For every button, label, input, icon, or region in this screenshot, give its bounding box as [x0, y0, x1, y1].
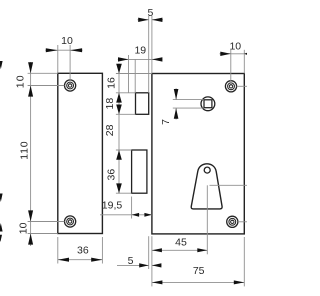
mid chain dimension line [118, 64, 120, 194]
arrow to 10tr right clipped [244, 53, 247, 54]
75 dimension line [152, 281, 244, 283]
svg-text:28: 28 [104, 124, 116, 136]
arrow to 10tr left [220, 52, 231, 56]
svg-text:18: 18 [104, 98, 116, 110]
svg-text:5: 5 [147, 7, 153, 19]
mid chain ext: latch top [116, 92, 136, 94]
bottom 5 ext: case corner down [151, 236, 153, 286]
svg-text:10: 10 [229, 40, 241, 52]
19 dimension line [118, 58, 129, 60]
mid chain ext: bolt top [116, 149, 132, 151]
arrow left 19,5 [132, 213, 140, 217]
chain arrow down bolt bottom [116, 183, 122, 193]
extension line bottom hole center [28, 221, 65, 223]
7 dim: ext line square bottom [173, 107, 204, 109]
svg-text:19,5: 19,5 [102, 200, 123, 212]
line right of bottom screw [238, 221, 247, 223]
svg-text:36: 36 [77, 245, 89, 257]
clipped arrow left edge B [0, 194, 3, 203]
mid chain ext: latch bottom [116, 113, 136, 115]
top 5 dimension line right part [152, 19, 163, 21]
arrow down to square top [174, 89, 179, 100]
10 top right: ext case right edge up [243, 50, 245, 74]
latch opening box [136, 93, 149, 115]
10 top right dimension line [220, 53, 231, 55]
19,5 dimension leader [100, 214, 132, 216]
extension line plate bottom-right down [101, 237, 103, 264]
75 ext: case right down [243, 237, 245, 286]
keyhole cover screw hole [204, 167, 210, 173]
arrow right to plate edge [46, 48, 58, 52]
7 dimension line [175, 88, 177, 99]
svg-text:19: 19 [134, 45, 146, 57]
svg-text:10: 10 [18, 222, 30, 234]
deadbolt box [132, 150, 147, 193]
clipped arrow left edge A [0, 61, 3, 69]
arrow right 45 [197, 248, 207, 252]
extension line top hole center up [69, 45, 71, 80]
top 10 dimension line [45, 49, 82, 51]
10 top right: ext from screw hole up [230, 50, 232, 81]
svg-text:16: 16 [106, 77, 118, 89]
svg-text:45: 45 [175, 236, 187, 248]
arrow up to plate bottom [28, 234, 33, 245]
screw hole top (faceplate) [65, 80, 76, 91]
arrow to bottom5 right [152, 263, 162, 267]
extension line plate left edge up [57, 45, 59, 73]
svg-text:75: 75 [193, 265, 205, 277]
19 dim: left vertical ext [128, 55, 130, 93]
top 5 dim: right vertical ext [151, 16, 153, 74]
arrow right 75 [234, 280, 245, 284]
spindle circle [201, 97, 215, 111]
arrow up to square bottom [174, 108, 179, 119]
extension line top hole center [28, 85, 65, 87]
arrow left 36 [58, 258, 69, 262]
svg-text:5: 5 [128, 255, 134, 267]
arrow to 19 right [152, 57, 163, 61]
arrow to 5 left [138, 18, 149, 22]
arrow right 19,5 [144, 213, 152, 217]
arrow down to bottom hole [28, 210, 33, 221]
arrow left 45 [152, 248, 162, 252]
arrow right 36 [91, 258, 102, 262]
svg-text:10: 10 [15, 74, 27, 88]
clipped arrow left edge C [0, 223, 3, 232]
screw hole case top-right [225, 81, 236, 92]
arrow to 5 right [152, 18, 163, 22]
top 5 dim: left vertical ext [148, 16, 150, 93]
arrow down to plate top [28, 62, 33, 73]
arrow to 19 left [118, 57, 129, 61]
keyhole center vertical line [206, 185, 208, 254]
arrow up to top hole [28, 86, 33, 97]
line right of top screw [237, 85, 247, 87]
top 5 dimension line left part [138, 19, 149, 21]
extension line plate top-left [28, 72, 58, 74]
svg-text:36: 36 [106, 169, 118, 181]
chain arrow up latch top [116, 93, 122, 103]
arrow left 75 [152, 280, 163, 284]
chain arrow up bolt top [116, 150, 122, 160]
faceplate front view outline [58, 73, 103, 233]
chain arrow down case top [116, 64, 122, 74]
7 dim: ext line square top [173, 99, 204, 101]
19 dim: latch edge vertical ext [134, 59, 136, 92]
left chain dimension line [30, 62, 32, 246]
clipped arrow left edge D [0, 235, 2, 242]
arrow left to hole center [70, 48, 82, 52]
bottom 36 dimension line [58, 259, 103, 261]
bottom 5 ext: faceplate front down [148, 236, 150, 269]
extension line plate bottom-left down [57, 237, 59, 264]
svg-text:10: 10 [61, 35, 73, 47]
mid chain ext: bolt bottom [116, 192, 132, 194]
bottom 5 dim leader [117, 264, 149, 266]
keyhole horizontal line to right edge [210, 184, 248, 186]
spindle square [204, 100, 212, 108]
lock case outline [152, 74, 244, 234]
svg-text:110: 110 [19, 141, 31, 160]
keyhole cover plate [191, 164, 222, 209]
screw hole case bottom-right [227, 216, 238, 227]
chain arrow down latch bottom [116, 105, 122, 115]
45 dimension line [152, 249, 207, 251]
extension line plate bottom-left [28, 233, 58, 235]
svg-text:7: 7 [160, 119, 172, 125]
mid chain ext: case top-left [116, 73, 152, 75]
19,5 ext: bolt face down [131, 197, 133, 219]
screw hole bottom (faceplate) [65, 216, 76, 227]
arrow to bottom5 left [139, 263, 149, 267]
